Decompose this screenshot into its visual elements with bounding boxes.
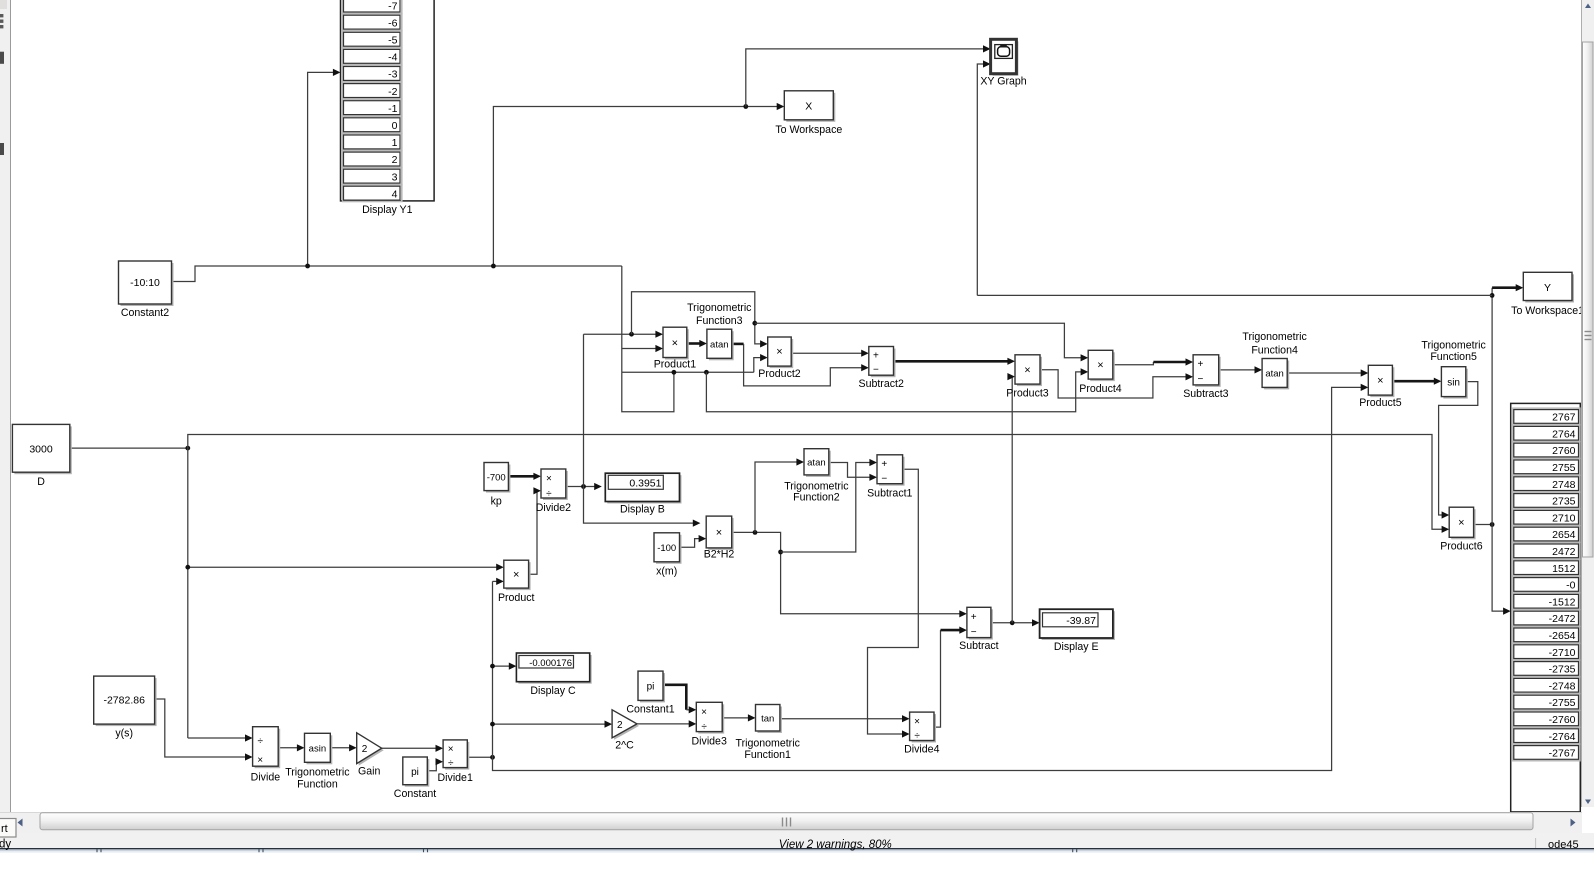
wire Product1 out to Trigonometric Function3 (wide): [687, 340, 707, 347]
svg-text:×: ×: [672, 337, 678, 349]
svg-text:Trigonometric: Trigonometric: [1421, 340, 1486, 352]
wire Trigonometric Function4 out to Product5 in1: [1287, 369, 1368, 376]
right vertical scrollbar: [1582, 0, 1594, 807]
svg-text:3: 3: [392, 171, 398, 183]
svg-text:-2767: -2767: [1549, 748, 1576, 760]
constant Constant2: [119, 261, 174, 306]
svg-text:2748: 2748: [1552, 479, 1576, 491]
wire branch to XY Graph in1: [746, 45, 991, 106]
wire net Constant2 main: [172, 266, 622, 372]
svg-text:Function4: Function4: [1251, 345, 1298, 357]
trig Trigonometric Function2: [804, 449, 831, 477]
svg-text:2: 2: [362, 744, 368, 755]
svg-text:1512: 1512: [1552, 563, 1576, 575]
svg-text:×: ×: [1097, 359, 1103, 371]
svg-text:-2710: -2710: [1549, 647, 1576, 659]
product Product5: [1368, 365, 1394, 397]
svg-text:Constant2: Constant2: [121, 307, 169, 319]
svg-text:Function2: Function2: [793, 492, 840, 504]
svg-text:2764: 2764: [1552, 428, 1576, 440]
svg-text:-2735: -2735: [1549, 664, 1576, 676]
left sidebar strip: [0, 0, 11, 812]
wire Divide4 out to Subtract minus: [934, 627, 967, 728]
scope XY Graph: [991, 39, 1019, 75]
wire net D output: [70, 446, 190, 451]
wire net Product6 out / Y / XY in2 / right display: [977, 60, 1523, 614]
svg-text:2654: 2654: [1552, 529, 1576, 541]
wire branch to Product1 in2: [622, 345, 663, 352]
divide Divide: [253, 727, 281, 769]
svg-text:To Workspace: To Workspace: [775, 124, 842, 136]
svg-text:-0: -0: [1566, 580, 1575, 592]
wire Subtract1 out to Divide4 in2: [868, 469, 919, 737]
sum Subtract2: [869, 347, 896, 378]
display Display C: [516, 653, 591, 684]
svg-text:Product6: Product6: [1440, 541, 1483, 553]
svg-text:+: +: [873, 351, 879, 362]
svg-text:Constant: Constant: [394, 788, 436, 800]
svg-text:2472: 2472: [1552, 546, 1576, 558]
bottom horizontal scrollbar: [0, 812, 1582, 833]
svg-text:View 2 warnings, 80%: View 2 warnings, 80%: [779, 839, 892, 851]
svg-text:÷: ÷: [546, 489, 552, 500]
trig Trigonometric Function: [305, 733, 333, 764]
constant Constant1: [638, 671, 665, 702]
svg-text:atan: atan: [710, 339, 729, 350]
wire y(s) to Divide in2: [155, 699, 253, 761]
svg-text:Subtract2: Subtract2: [859, 378, 904, 390]
wire B2*H2 out net: [732, 458, 967, 617]
svg-text:÷: ÷: [257, 736, 263, 747]
svg-text:-2: -2: [388, 86, 397, 98]
status bar: [0, 833, 1594, 872]
to-workspace To Workspace1: [1523, 272, 1574, 302]
wire Trigonometric Function5 out to Product6 in1: [1439, 382, 1478, 519]
wire branch to To Workspace: [491, 103, 784, 269]
svg-text:÷: ÷: [448, 758, 454, 769]
svg-text:Function3: Function3: [696, 315, 743, 327]
svg-text:2735: 2735: [1552, 496, 1576, 508]
svg-text:ode45: ode45: [1548, 839, 1579, 851]
svg-text:−: −: [971, 627, 977, 638]
wire asin out: [330, 744, 356, 751]
svg-text:-2654: -2654: [1549, 630, 1576, 642]
wire Divide3 out to Trigonometric Function1: [722, 714, 755, 721]
product Product6: [1449, 507, 1475, 539]
svg-text:atan: atan: [807, 457, 826, 468]
wire Constant pi to Divide1 in2: [427, 758, 443, 771]
svg-text:Display E: Display E: [1054, 641, 1099, 653]
svg-text:Product1: Product1: [654, 359, 697, 371]
constant x(m): [654, 533, 682, 564]
divide Divide3: [696, 702, 724, 733]
svg-text:-2764: -2764: [1549, 731, 1576, 743]
svg-text:Product2: Product2: [758, 368, 801, 380]
svg-text:×: ×: [1458, 517, 1464, 529]
svg-text:×: ×: [513, 569, 519, 581]
product Product4: [1088, 350, 1115, 381]
svg-text:pi: pi: [647, 681, 655, 692]
svg-text:×: ×: [1377, 375, 1383, 387]
gain Gain: [357, 733, 384, 766]
constant kp: [484, 463, 510, 493]
svg-text:Trigonometric: Trigonometric: [687, 302, 752, 314]
wire Subtract2 out to Product3 in1 (wide): [894, 358, 1016, 365]
svg-text:Subtract: Subtract: [959, 640, 999, 652]
svg-text:×: ×: [716, 527, 722, 539]
svg-text:Gain: Gain: [358, 766, 380, 778]
svg-text:atan: atan: [1265, 369, 1284, 380]
sum Subtract: [967, 607, 993, 639]
svg-text:Trigonometric: Trigonometric: [285, 767, 350, 779]
wire horizontal y372 with loop rectangle: [622, 354, 768, 412]
svg-text:2: 2: [392, 154, 398, 166]
svg-text:+: +: [881, 459, 887, 470]
svg-text:-5: -5: [388, 35, 397, 47]
svg-text:-100: -100: [657, 543, 676, 554]
to-workspace To Workspace: [784, 91, 835, 122]
svg-text:×: ×: [1024, 364, 1030, 376]
svg-text:÷: ÷: [701, 721, 707, 732]
svg-text:-4: -4: [388, 52, 397, 64]
wire x(m) to B2*H2 in2: [680, 535, 707, 547]
Display Y1: [341, 0, 435, 216]
svg-text:tan: tan: [761, 714, 774, 725]
svg-text:D: D: [37, 476, 45, 488]
constant y(s): [94, 676, 157, 726]
wire Constant1 to Divide3 in1 (wide): [663, 685, 696, 714]
trig Trigonometric Function5: [1441, 367, 1467, 399]
wire Product3 out to Subtract3 minus: [1040, 370, 1193, 398]
svg-text:Product4: Product4: [1079, 383, 1122, 395]
wire Subtract3 out to Trigonometric Function4: [1219, 366, 1262, 373]
svg-text:Divide4: Divide4: [904, 744, 939, 756]
svg-text:2760: 2760: [1552, 445, 1576, 457]
svg-text:Function5: Function5: [1430, 351, 1477, 363]
wire branch to 2^C gain: [490, 721, 612, 728]
product Product1: [663, 327, 689, 359]
product B2*H2: [706, 516, 734, 550]
trig Trigonometric Function3: [707, 329, 734, 360]
svg-text:Display Y1: Display Y1: [362, 204, 413, 216]
wire branch to Product in1: [185, 564, 503, 571]
wire Product out to Divide2 in2: [529, 487, 541, 574]
svg-text:Product5: Product5: [1359, 397, 1402, 409]
svg-text:+: +: [1197, 359, 1203, 370]
svg-text:-2472: -2472: [1549, 613, 1576, 625]
wire branch to Product4 in2: [706, 368, 1088, 412]
svg-text:-10:10: -10:10: [130, 277, 160, 289]
svg-text:X: X: [805, 101, 812, 113]
wire Subtract out to Display E: [991, 373, 1040, 626]
wire Divide2 out to Display B: [566, 483, 602, 490]
wire net Divide1 output: [467, 384, 1368, 771]
svg-text:Subtract3: Subtract3: [1183, 388, 1228, 400]
gain 2^C: [612, 710, 639, 740]
display Display E: [1040, 609, 1115, 640]
svg-text:-0.000176: -0.000176: [529, 658, 572, 669]
sum Subtract3: [1193, 355, 1221, 387]
wire Gain out: [382, 745, 443, 752]
wire Product4 out to Subtract3 plus: [1113, 358, 1193, 365]
wire kp to Divide2 in1 (wide): [508, 473, 541, 480]
svg-text:B2*H2: B2*H2: [704, 549, 735, 561]
svg-text:−: −: [873, 365, 879, 376]
wire Trigonometric Function3 out to Subtract2 minus: [732, 344, 869, 386]
svg-text:0: 0: [392, 120, 398, 132]
svg-text:0.3951: 0.3951: [629, 477, 661, 489]
constant Constant: [403, 757, 430, 787]
wire Trigonometric Function1 out to Divide4 in1: [780, 715, 910, 722]
svg-text:Constant1: Constant1: [626, 704, 674, 716]
wire Product5 out to Trigonometric Function5 (wide): [1392, 378, 1441, 385]
svg-text:3000: 3000: [29, 443, 53, 455]
product Product2: [768, 337, 794, 368]
wire branch to Display C: [490, 663, 516, 670]
svg-text:y(s): y(s): [115, 728, 133, 740]
svg-text:-1512: -1512: [1549, 596, 1576, 608]
svg-text:Function: Function: [297, 779, 338, 791]
display right vector display: [1511, 403, 1581, 812]
svg-text:pi: pi: [411, 767, 419, 778]
svg-text:×: ×: [546, 474, 552, 485]
wire branch to Product4 in1: [755, 323, 1088, 361]
svg-text:Display B: Display B: [620, 504, 665, 516]
product Product3: [1015, 355, 1042, 386]
svg-text:2710: 2710: [1552, 512, 1576, 524]
svg-text:-1: -1: [388, 103, 397, 115]
svg-text:Subtract1: Subtract1: [867, 488, 912, 500]
bottom-left tooltip (Start): [0, 819, 16, 838]
svg-text:Function1: Function1: [744, 749, 791, 761]
svg-text:2: 2: [617, 720, 623, 731]
svg-text:1: 1: [392, 137, 398, 149]
svg-text:Product3: Product3: [1006, 388, 1049, 400]
svg-text:+: +: [971, 612, 977, 623]
svg-text:-6: -6: [388, 17, 397, 29]
svg-text:kp: kp: [491, 496, 502, 508]
trig Trigonometric Function1: [756, 705, 782, 734]
svg-text:XY Graph: XY Graph: [980, 76, 1026, 88]
svg-text:-700: -700: [487, 472, 506, 483]
wire Trigonometric Function2 out to Subtract1 minus: [829, 463, 877, 481]
svg-text:asin: asin: [309, 744, 326, 755]
svg-text:Divide2: Divide2: [536, 502, 571, 514]
svg-text:×: ×: [448, 744, 454, 755]
svg-text:Product: Product: [498, 592, 535, 604]
svg-text:dy: dy: [0, 839, 11, 851]
svg-text:2767: 2767: [1552, 412, 1576, 424]
svg-text:x(m): x(m): [656, 566, 677, 578]
svg-text:×: ×: [701, 707, 707, 718]
svg-text:4: 4: [392, 188, 398, 200]
svg-text:rt: rt: [1, 823, 8, 835]
svg-text:×: ×: [776, 346, 782, 358]
wire Product2 out to Subtract2 plus: [791, 350, 869, 357]
svg-text:-2755: -2755: [1549, 697, 1576, 709]
wire branch to Display Y1: [305, 69, 340, 269]
divide Divide1: [443, 740, 469, 770]
svg-text:-2760: -2760: [1549, 714, 1576, 726]
svg-text:×: ×: [914, 717, 920, 728]
svg-text:sin: sin: [1447, 377, 1460, 388]
svg-text:Display C: Display C: [530, 685, 576, 697]
product Product: [504, 560, 531, 590]
svg-text:Y: Y: [1544, 282, 1551, 294]
svg-text:To Workspace1: To Workspace1: [1511, 305, 1584, 317]
svg-text:−: −: [881, 473, 887, 484]
wire Divide2 out up to Product1 in1 and down to B2*H2 in1: [584, 331, 701, 527]
wire loop Product1 in1 to Product2 in1: [632, 292, 768, 348]
svg-text:-39.87: -39.87: [1066, 615, 1096, 627]
svg-text:−: −: [1197, 374, 1203, 385]
display Display B: [605, 473, 681, 503]
svg-text:Divide1: Divide1: [438, 772, 473, 784]
divide Divide4: [910, 712, 936, 742]
divide Divide2: [541, 469, 568, 500]
svg-text:-7: -7: [388, 0, 397, 12]
svg-text:2755: 2755: [1552, 462, 1576, 474]
svg-text:Trigonometric: Trigonometric: [736, 738, 801, 750]
svg-text:÷: ÷: [914, 731, 920, 742]
wire D vertical + long horizontal y434: [188, 435, 1449, 742]
constant D: [12, 424, 71, 474]
svg-text:-2782.86: -2782.86: [103, 694, 145, 706]
svg-text:×: ×: [257, 755, 263, 766]
svg-text:Trigonometric: Trigonometric: [1242, 331, 1307, 343]
wire Divide out: [278, 744, 304, 751]
svg-text:Divide: Divide: [251, 772, 281, 784]
sum Subtract1: [877, 455, 905, 486]
svg-text:2^C: 2^C: [615, 740, 634, 752]
svg-text:Divide3: Divide3: [692, 736, 727, 748]
wire 2^C gain out to Divide3 in2: [637, 720, 696, 727]
svg-text:-3: -3: [388, 69, 397, 81]
svg-text:-2748: -2748: [1549, 680, 1576, 692]
trig Trigonometric Function4: [1262, 359, 1289, 390]
